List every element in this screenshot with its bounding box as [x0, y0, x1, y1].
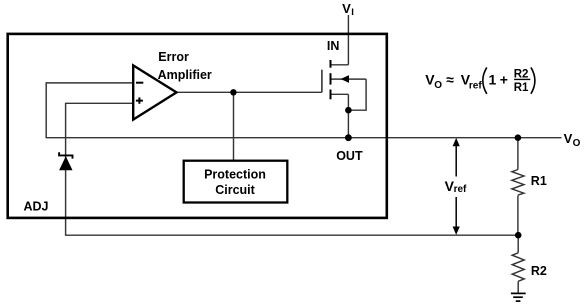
svg-text:R1: R1 [514, 82, 529, 94]
svg-text:≈: ≈ [446, 71, 454, 87]
svg-text:V: V [342, 1, 351, 16]
svg-text:ref: ref [454, 184, 467, 195]
svg-text:V: V [564, 131, 573, 146]
svg-text:+: + [500, 71, 508, 87]
svg-text:IN: IN [327, 39, 340, 53]
svg-text:R2: R2 [514, 68, 529, 80]
svg-text:R1: R1 [531, 174, 547, 188]
svg-text:ADJ: ADJ [24, 199, 49, 213]
svg-text:1: 1 [489, 71, 497, 87]
svg-text:I: I [351, 7, 354, 18]
svg-text:Protection: Protection [204, 167, 266, 181]
svg-text:Error: Error [158, 50, 189, 64]
svg-text:O: O [434, 80, 442, 91]
svg-text:Circuit: Circuit [215, 183, 255, 197]
svg-text:O: O [573, 138, 581, 149]
svg-text:R2: R2 [531, 264, 547, 278]
svg-text:ref: ref [469, 81, 482, 92]
svg-text:OUT: OUT [336, 149, 363, 163]
svg-text:Amplifier: Amplifier [158, 68, 212, 82]
